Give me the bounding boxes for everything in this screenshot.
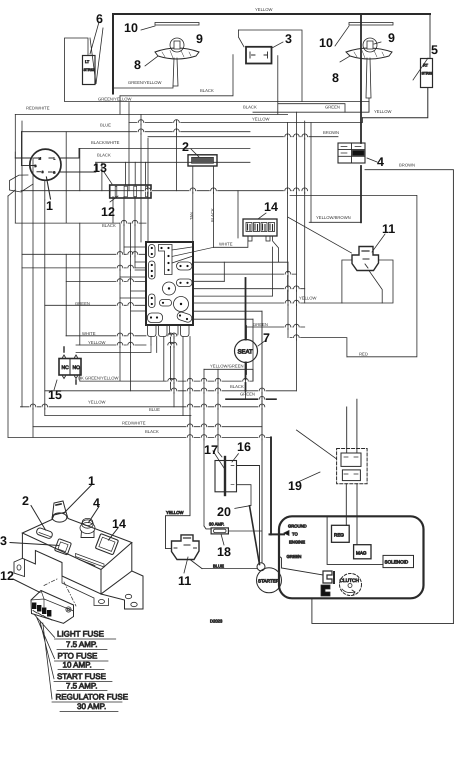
svg-text:RED: RED [359,352,368,357]
svg-text:GREEN/YELLOW: GREEN/YELLOW [128,80,162,85]
svg-text:7.5 AMP.: 7.5 AMP. [66,682,97,691]
svg-text:YELLOW: YELLOW [374,109,392,114]
svg-text:8: 8 [134,58,141,72]
svg-text:13: 13 [93,161,107,175]
svg-text:GREEN: GREEN [75,301,90,306]
svg-text:4: 4 [377,155,384,169]
svg-text:10: 10 [319,36,333,50]
svg-text:16: 16 [237,440,251,454]
svg-text:BLUE: BLUE [100,123,111,128]
svg-text:BLACK: BLACK [102,223,116,228]
svg-text:YELLOW/GREEN: YELLOW/GREEN [210,364,244,369]
svg-text:TAN: TAN [189,212,194,220]
svg-text:2: 2 [22,494,29,508]
svg-text:12: 12 [0,569,14,583]
svg-text:G: G [53,171,56,175]
svg-text:L: L [54,157,56,161]
svg-text:20: 20 [217,505,231,519]
svg-text:GREEN: GREEN [253,322,268,327]
svg-text:WHITE: WHITE [219,242,233,247]
svg-text:ENGINE: ENGINE [289,540,305,545]
svg-text:YELLOW: YELLOW [255,7,273,12]
svg-text:GROUND: GROUND [288,524,307,529]
svg-text:19: 19 [288,479,302,493]
svg-text:17: 17 [204,443,218,457]
svg-text:11: 11 [178,574,191,588]
svg-text:BLUE: BLUE [213,564,224,569]
svg-text:RED/WHITE: RED/WHITE [26,106,50,111]
svg-text:CLUTCH: CLUTCH [340,578,360,584]
svg-text:NO: NO [73,365,81,371]
svg-text:BLACK: BLACK [145,429,159,434]
svg-text:9: 9 [388,31,395,45]
svg-text:S: S [42,170,44,174]
svg-text:D2023: D2023 [210,619,223,624]
svg-text:30 AMP.: 30 AMP. [77,702,106,711]
svg-text:10 AMP.: 10 AMP. [63,661,92,670]
svg-text:2: 2 [182,140,189,154]
svg-text:1: 1 [46,199,53,213]
svg-text:BLACK: BLACK [230,384,244,389]
svg-text:3: 3 [285,32,292,46]
svg-text:BROWN: BROWN [323,130,339,135]
svg-text:YELLOW: YELLOW [88,340,106,345]
svg-text:STRIG: STRIG [84,68,95,72]
svg-text:TO: TO [292,532,298,537]
svg-text:GREEN: GREEN [240,392,255,397]
svg-text:YELLOW/BROWN: YELLOW/BROWN [316,215,351,220]
svg-text:REGULATOR FUSE: REGULATOR FUSE [56,693,129,702]
svg-text:GREEN: GREEN [325,105,340,110]
svg-text:BLACK: BLACK [210,208,215,222]
svg-text:BROWN: BROWN [399,163,415,168]
svg-text:9: 9 [196,32,203,46]
svg-text:DK GREEN/YELLOW: DK GREEN/YELLOW [78,376,119,381]
svg-text:18: 18 [217,545,231,559]
svg-text:BLACK: BLACK [200,88,214,93]
svg-text:8: 8 [332,71,339,85]
svg-text:LIGHT FUSE: LIGHT FUSE [57,630,104,639]
svg-text:12: 12 [101,205,115,219]
svg-text:MAG: MAG [356,551,367,556]
svg-text:STRIG: STRIG [422,72,433,76]
svg-text:STARTER: STARTER [258,579,280,584]
svg-text:30 AMP.: 30 AMP. [209,522,224,527]
svg-text:YELLOW: YELLOW [252,117,270,122]
svg-text:3: 3 [0,534,7,548]
svg-text:6: 6 [96,12,103,26]
svg-text:RED/WHITE: RED/WHITE [122,421,146,426]
svg-text:GREEN/YELLOW: GREEN/YELLOW [98,97,132,102]
svg-text:1: 1 [88,474,95,488]
svg-text:REG: REG [334,533,344,538]
svg-text:5: 5 [431,43,438,57]
svg-text:NC: NC [62,365,70,371]
svg-text:15: 15 [48,388,62,402]
svg-text:14: 14 [112,517,126,531]
svg-text:SEAT: SEAT [238,349,254,356]
svg-text:START FUSE: START FUSE [57,672,106,681]
svg-text:BLACK: BLACK [243,105,257,110]
svg-text:4: 4 [93,496,100,510]
svg-text:BLACK: BLACK [97,153,111,158]
svg-text:7.5 AMP.: 7.5 AMP. [66,640,97,649]
svg-text:WHITE: WHITE [82,331,96,336]
svg-text:PTO FUSE: PTO FUSE [58,652,98,661]
svg-text:LT: LT [85,60,90,64]
svg-text:YELLOW: YELLOW [88,400,106,405]
svg-text:SOLENOID: SOLENOID [385,560,409,565]
svg-text:YELLOW: YELLOW [166,510,184,515]
svg-text:10: 10 [124,21,138,35]
svg-text:7: 7 [263,331,270,345]
svg-text:BLUE: BLUE [149,407,160,412]
svg-text:YELLOW: YELLOW [299,296,317,301]
svg-text:BLACK/WHITE: BLACK/WHITE [91,140,120,145]
svg-text:14: 14 [264,200,278,214]
svg-text:B: B [35,164,37,168]
svg-text:M: M [39,157,42,161]
svg-text:GREEN: GREEN [287,554,302,559]
svg-text:11: 11 [382,222,395,236]
